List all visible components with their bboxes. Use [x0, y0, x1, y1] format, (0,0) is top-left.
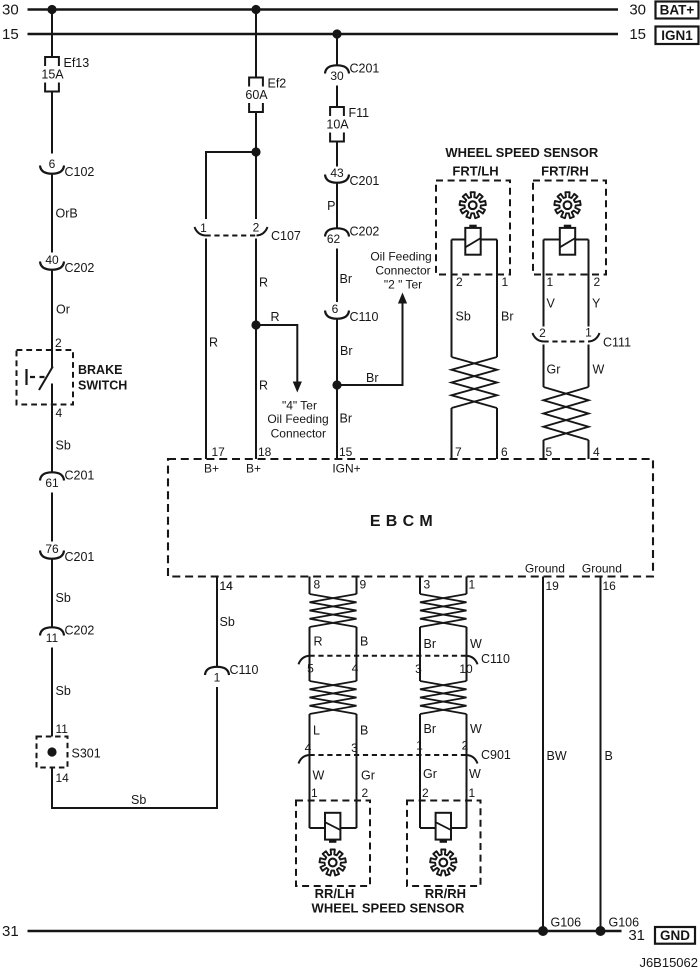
svg-text:76: 76 [45, 542, 59, 556]
node BAT+ terminal box [656, 2, 699, 19]
svg-text:Br: Br [340, 272, 353, 286]
svg-text:15: 15 [629, 26, 646, 43]
wire EBCM pin 3 down [419, 577, 421, 595]
fuse Ef13 15A [45, 57, 59, 66]
svg-text:W: W [470, 722, 482, 736]
svg-text:Ground: Ground [582, 562, 622, 576]
svg-text:R: R [314, 635, 323, 649]
svg-text:5: 5 [546, 445, 553, 459]
svg-text:6: 6 [332, 302, 339, 316]
junction on bus 30 at Ef13 feed [47, 5, 56, 14]
svg-text:31: 31 [2, 923, 19, 940]
svg-text:FRT/LH: FRT/LH [452, 163, 498, 178]
connector C110 pin 6 [325, 311, 349, 319]
svg-text:C110: C110 [230, 663, 259, 677]
svg-text:C110: C110 [481, 652, 510, 666]
svg-text:1: 1 [311, 786, 318, 800]
svg-text:62: 62 [327, 232, 341, 246]
svg-text:30: 30 [2, 2, 19, 19]
svg-text:4: 4 [352, 662, 359, 676]
wire EBCM pin 16 to G106, colour B [600, 577, 602, 932]
svg-text:60A: 60A [245, 88, 268, 102]
wire branch to 4 Ter oil feeding connector [256, 325, 297, 382]
svg-text:Br: Br [366, 371, 379, 385]
svg-text:C202: C202 [350, 225, 380, 239]
wire EBCM pin 9 down [356, 577, 358, 595]
svg-text:1: 1 [469, 786, 476, 800]
svg-text:G106: G106 [551, 916, 582, 930]
svg-text:S301: S301 [72, 747, 101, 761]
FRT/RH sensor box [533, 181, 606, 275]
wire to C110 pin 5, colour R [309, 627, 311, 656]
svg-text:R: R [259, 276, 268, 290]
EBCM module box [168, 459, 653, 577]
brake switch contact blade [39, 367, 53, 391]
junction on bus 30 at Ef2 feed [251, 5, 260, 14]
svg-text:V: V [547, 297, 556, 311]
svg-text:RR/LH: RR/LH [315, 886, 355, 901]
svg-text:R: R [259, 379, 268, 393]
svg-text:4: 4 [56, 406, 63, 420]
svg-text:2: 2 [462, 739, 469, 753]
svg-text:1: 1 [214, 671, 221, 685]
twisted pair FRT/RH [544, 387, 589, 440]
svg-text:18: 18 [258, 445, 272, 459]
arrowhead to 2 Ter oil feeding connector [398, 293, 407, 304]
svg-text:17: 17 [212, 445, 226, 459]
connector C110 pin 1 [205, 667, 229, 675]
brake switch box [17, 350, 74, 405]
svg-text:Gr: Gr [361, 769, 375, 783]
svg-text:Br: Br [501, 310, 514, 324]
svg-text:WHEEL SPEED SENSOR: WHEEL SPEED SENSOR [445, 145, 599, 160]
svg-text:GND: GND [660, 928, 690, 943]
svg-text:Sb: Sb [131, 793, 146, 807]
svg-text:C202: C202 [65, 261, 95, 275]
svg-text:40: 40 [45, 253, 59, 267]
svg-text:C102: C102 [65, 165, 95, 179]
wire F11 to C201-43 [336, 142, 338, 167]
svg-text:C201: C201 [350, 62, 380, 76]
wire C202-62 to C110-6, colour Br [336, 249, 338, 303]
svg-text:R: R [271, 310, 280, 324]
wire to C901 pin 2, colour W [466, 714, 468, 755]
svg-text:F11: F11 [349, 106, 370, 120]
wire C202 to brake switch, colour Or [51, 271, 53, 369]
splice S301 node [47, 747, 56, 756]
svg-text:11: 11 [46, 631, 59, 645]
brake switch plunger [25, 369, 27, 385]
svg-text:2: 2 [55, 336, 62, 350]
wire C110-5 down [309, 656, 311, 681]
svg-text:Sb: Sb [456, 310, 471, 324]
wire S301 down and right to C110, colour Sb [52, 687, 217, 808]
svg-text:10A: 10A [326, 118, 349, 132]
svg-text:Br: Br [424, 722, 437, 736]
svg-text:Sb: Sb [56, 439, 71, 453]
wire C107 pin2 to EBCM pin 18, colour R [255, 239, 257, 460]
svg-text:OrB: OrB [56, 207, 78, 221]
FRT/LH sensor box [436, 181, 510, 275]
svg-text:Br: Br [340, 412, 353, 426]
svg-text:C201: C201 [350, 174, 380, 188]
svg-text:Sb: Sb [56, 684, 71, 698]
wire to C901 pin 3, colour B [356, 714, 358, 755]
wire Ef2 to C107 pin 2 [255, 112, 257, 220]
wire Ef13 to C102 [51, 92, 53, 154]
fuse Ef2 60A [249, 78, 263, 87]
svg-text:C201: C201 [65, 469, 95, 483]
svg-text:6: 6 [49, 157, 56, 171]
connector C110 pins 5,4,3,10 [310, 655, 467, 657]
svg-text:RR/RH: RR/RH [425, 886, 466, 901]
wire branch to C107 pin 1 [206, 152, 256, 219]
wire C201-43 to C202-62, colour P [336, 184, 338, 228]
svg-text:Ef2: Ef2 [268, 77, 287, 91]
svg-text:30: 30 [629, 2, 646, 19]
wire twisted pair to EBCM pins 7 and 6 [451, 408, 453, 459]
svg-text:IGN+: IGN+ [332, 462, 360, 476]
junction Br branch to 2-Ter connector arrow [332, 380, 341, 389]
svg-text:Gr: Gr [547, 363, 561, 377]
wire FRT/LH pin1 colour Br [496, 240, 498, 358]
svg-text:Oil Feeding: Oil Feeding [267, 412, 328, 426]
svg-text:Ground: Ground [525, 562, 565, 576]
wire twisted pair to EBCM pins 5 and 4 [543, 440, 545, 459]
svg-text:8: 8 [314, 578, 321, 592]
connector C201 pin 43 [325, 175, 349, 183]
FRT/LH sensor gear [460, 192, 486, 218]
svg-text:19: 19 [546, 579, 560, 593]
RR/RH sensor element [436, 813, 451, 840]
svg-text:1: 1 [416, 739, 423, 753]
wire C201 to fuse F11 [336, 86, 338, 108]
svg-text:7: 7 [455, 445, 462, 459]
svg-text:"4" Ter: "4" Ter [282, 399, 317, 413]
svg-text:R: R [209, 336, 218, 350]
svg-text:43: 43 [330, 166, 344, 180]
svg-text:15: 15 [2, 26, 19, 43]
wire bus30 to fuse Ef13 [51, 10, 53, 58]
svg-text:6: 6 [501, 445, 508, 459]
svg-text:Gr: Gr [423, 767, 437, 781]
svg-text:1: 1 [502, 275, 509, 289]
svg-text:1: 1 [469, 578, 476, 592]
svg-text:WHEEL SPEED SENSOR: WHEEL SPEED SENSOR [312, 901, 466, 916]
svg-text:B+: B+ [246, 462, 261, 476]
wire to C110 pin 3, colour Br [419, 627, 421, 656]
wire C901-2 to RR/RH pin 1, colour W [466, 755, 468, 828]
svg-text:B: B [360, 724, 368, 738]
junction on bus 15 at IGN feed [332, 29, 341, 38]
wire C110-4 down [356, 656, 358, 681]
svg-text:Or: Or [56, 303, 70, 317]
wire EBCM pin 19 to G106, colour BW [542, 577, 544, 932]
RR/LH sensor element [325, 813, 340, 840]
svg-text:E B C M: E B C M [370, 513, 433, 530]
svg-text:BAT+: BAT+ [660, 3, 695, 18]
wire C102 to C202, colour OrB [51, 175, 53, 253]
wire branch to 2 Ter oil feeding connector [337, 304, 403, 386]
junction Ef2 branch [251, 147, 260, 156]
wire C110-6 to EBCM pin 15, colour Br [336, 320, 338, 460]
svg-text:W: W [593, 363, 605, 377]
connector C201 pin 30 [325, 65, 349, 73]
svg-text:1: 1 [585, 326, 592, 340]
svg-text:IGN1: IGN1 [661, 28, 693, 43]
svg-text:61: 61 [45, 476, 59, 490]
FRT/LH sensor element [465, 228, 480, 255]
svg-text:J6B15062: J6B15062 [639, 955, 698, 970]
node IGN1 terminal box [656, 27, 699, 45]
wire bus30 to fuse Ef2 [255, 10, 257, 78]
wire C901-4 to RR/LH pin 1, colour W [309, 755, 311, 828]
wire C107 pin1 to EBCM pin 17, colour R [205, 239, 207, 460]
svg-text:15A: 15A [41, 68, 64, 82]
twisted pair rear-right lower [420, 681, 467, 714]
svg-text:Connector: Connector [375, 264, 430, 278]
wire bus 15 (IGN1) [28, 33, 619, 36]
fuse F11 10A [330, 107, 344, 116]
svg-text:W: W [470, 637, 482, 651]
svg-text:1: 1 [200, 221, 207, 235]
svg-text:3: 3 [415, 662, 422, 676]
wire FRT/LH pin2 colour Sb [451, 240, 453, 358]
svg-text:P: P [327, 199, 335, 213]
svg-text:B: B [360, 635, 368, 649]
svg-text:31: 31 [628, 927, 645, 944]
svg-text:C201: C201 [65, 550, 95, 564]
svg-text:5: 5 [307, 662, 314, 676]
wire C201 to C201-76, colour Sb [51, 493, 53, 542]
wire C201-76 to C202-11, colour Sb [51, 560, 53, 627]
twisted pair FRT/LH [452, 357, 498, 408]
svg-text:2: 2 [362, 786, 369, 800]
svg-text:BW: BW [547, 749, 567, 763]
wire EBCM pin 8 down [309, 577, 311, 595]
svg-text:9: 9 [360, 578, 367, 592]
RR/RH sensor gear [430, 850, 456, 876]
wire to C110 pin 10, colour W [466, 627, 468, 656]
RR/LH sensor gear [320, 850, 346, 876]
svg-text:14: 14 [56, 771, 70, 785]
connector C102 pin 6 [40, 166, 64, 174]
svg-text:W: W [313, 769, 325, 783]
connector C201 pin 61 [40, 472, 64, 480]
svg-text:FRT/RH: FRT/RH [541, 163, 589, 178]
svg-text:14: 14 [220, 579, 234, 593]
svg-text:Sb: Sb [56, 591, 71, 605]
wire C110-10 down [466, 656, 468, 681]
wire bus 30 (BAT+) [28, 8, 619, 11]
svg-text:SWITCH: SWITCH [78, 379, 127, 393]
svg-text:2: 2 [456, 275, 463, 289]
svg-text:C110: C110 [350, 310, 379, 324]
wire EBCM pin 1 down [466, 577, 468, 595]
svg-text:"2 " Ter: "2 " Ter [384, 278, 422, 292]
junction ground 16 on bus 31 [596, 926, 606, 936]
junction ground 19 on bus 31 [538, 926, 548, 936]
svg-text:1: 1 [547, 275, 554, 289]
svg-text:2: 2 [253, 221, 260, 235]
svg-text:B: B [605, 749, 613, 763]
svg-text:C107: C107 [271, 229, 301, 243]
svg-text:2: 2 [539, 326, 546, 340]
RR/RH sensor box [407, 801, 481, 887]
wire bus15 to C201 [336, 34, 338, 65]
svg-text:C901: C901 [481, 748, 511, 762]
svg-text:16: 16 [603, 579, 617, 593]
twisted pair rear-left upper [310, 594, 357, 627]
svg-text:L: L [313, 724, 320, 738]
splice S301 box [37, 737, 68, 768]
svg-text:B+: B+ [204, 462, 219, 476]
svg-text:G106: G106 [609, 916, 640, 930]
wire to C110 pin 4, colour B [356, 627, 358, 656]
wire C901-1 to RR/RH pin 2, colour Gr [419, 755, 421, 828]
wire C901-3 to RR/LH pin 2, colour Gr [356, 755, 358, 828]
svg-text:2: 2 [594, 275, 601, 289]
arrowhead to 4 Ter oil feeding connector [293, 382, 302, 393]
svg-text:Oil Feeding: Oil Feeding [370, 250, 431, 264]
wire FRT/RH pin1 colour V [543, 240, 545, 327]
wire bus 31 (GND) [28, 930, 622, 933]
FRT/RH sensor gear [554, 192, 580, 218]
twisted pair rear-left lower [310, 681, 357, 714]
svg-text:C202: C202 [65, 624, 95, 638]
wire to C901 pin 4, colour L [309, 714, 311, 755]
svg-text:W: W [469, 767, 481, 781]
svg-text:Connector: Connector [271, 426, 326, 440]
svg-text:4: 4 [593, 445, 600, 459]
connector C202 pin 40 [40, 262, 64, 270]
connector C201 pin 76 [40, 551, 64, 559]
wire C202 to splice S301, colour Sb [51, 648, 53, 737]
svg-text:3: 3 [351, 741, 358, 755]
svg-text:2: 2 [422, 786, 429, 800]
svg-text:Ef13: Ef13 [64, 56, 90, 70]
wire FRT/RH pin2 colour Y [588, 240, 590, 327]
svg-text:3: 3 [424, 578, 431, 592]
svg-text:Br: Br [424, 637, 437, 651]
svg-text:Br: Br [340, 344, 353, 358]
wire C111 to twisted pair, colour Gr [543, 345, 545, 388]
connector C202 pin 62 [325, 228, 349, 236]
svg-text:4: 4 [305, 741, 312, 755]
wire to C901 pin 1, colour Br [419, 714, 421, 755]
svg-text:Y: Y [592, 297, 601, 311]
wire EBCM pin 14 down to C110 [216, 577, 218, 667]
FRT/RH sensor element [560, 228, 575, 255]
node GND terminal box [655, 927, 695, 944]
connector C202 pin 11 [40, 627, 64, 635]
svg-text:BRAKE: BRAKE [78, 363, 122, 377]
RR/LH sensor box [296, 801, 370, 887]
svg-text:C111: C111 [603, 336, 631, 350]
svg-text:30: 30 [330, 69, 344, 83]
svg-text:11: 11 [56, 722, 69, 736]
junction R branch to 4-Ter connector arrow [251, 320, 260, 329]
wire C110-3 down [419, 656, 421, 681]
svg-text:15: 15 [339, 445, 353, 459]
wire C111 to twisted pair, colour W [588, 345, 590, 388]
svg-text:Sb: Sb [220, 615, 235, 629]
wire brake switch to C201, colour Sb [51, 384, 53, 472]
twisted pair rear-right upper [420, 594, 467, 627]
